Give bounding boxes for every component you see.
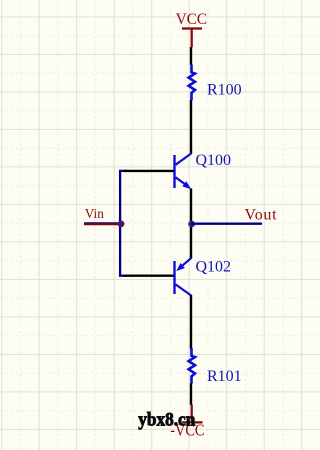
Q100 emitter arrow (182, 181, 191, 189)
svg-text:R101: R101 (207, 368, 242, 385)
node Vout junction (188, 221, 195, 228)
wire R100 to Q100 collector (190, 100, 192, 154)
transistor Q102 (175, 258, 192, 295)
wire R101 to -VCC (190, 383, 192, 405)
node Vin junction (118, 221, 125, 228)
resistor R101 (189, 348, 195, 383)
svg-text:Vin: Vin (85, 206, 104, 221)
svg-text:ybx8.cn: ybx8.cn (138, 409, 195, 430)
transistor Q100 (175, 154, 192, 188)
wire Q102 base (124, 275, 174, 277)
resistor R100 (189, 65, 195, 101)
wire VCC to R100 (190, 47, 192, 65)
power symbol VCC (182, 29, 202, 48)
svg-text:Q100: Q100 (196, 152, 232, 169)
wire Q100 emitter to Q102 emitter (190, 189, 192, 259)
power symbol -VCC (182, 405, 203, 423)
wire Q100 base (124, 170, 174, 172)
wire Vout (191, 223, 262, 225)
svg-text:Q102: Q102 (196, 258, 232, 275)
svg-text:VCC: VCC (176, 11, 207, 28)
Q102 emitter arrow (176, 263, 185, 271)
wire Vin (84, 222, 121, 224)
port line Vin (84, 223, 121, 225)
wire Q102 collector to R101 (190, 295, 192, 349)
wire input bracket (120, 171, 127, 276)
svg-text:Vout: Vout (245, 207, 278, 224)
svg-text:R100: R100 (207, 81, 242, 98)
